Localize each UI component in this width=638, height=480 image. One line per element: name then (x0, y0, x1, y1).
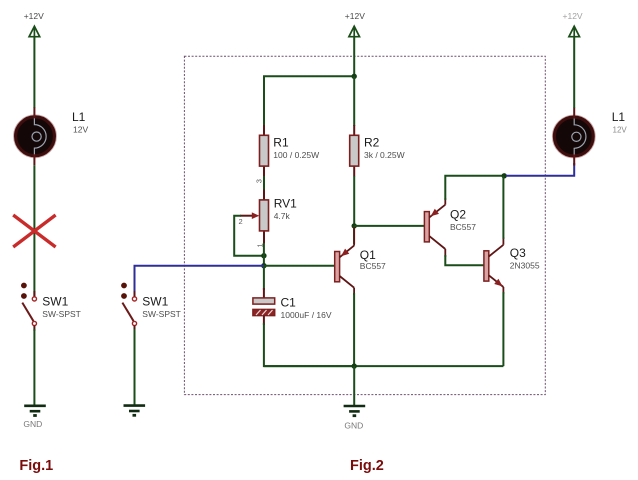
wire node C blue to lamp (506, 163, 574, 176)
power +12V terminal (Fig.2 top) (345, 11, 365, 37)
label Q2 BC557 (450, 208, 476, 232)
svg-text:Q1: Q1 (360, 248, 376, 262)
svg-text:+12V: +12V (24, 11, 44, 21)
label C1 1000uF/16V (281, 295, 332, 319)
svg-text:C1: C1 (281, 295, 297, 309)
wire C1 to bottom rail (264, 323, 353, 366)
junction node C (502, 173, 507, 178)
svg-text:100 / 0.25W: 100 / 0.25W (273, 150, 319, 160)
wire Q3 emitter to bottom rail (502, 292, 504, 366)
wire node A to R2 (353, 76, 355, 126)
pin number 1 (RV1) (255, 243, 264, 247)
wire Q2 collector to Q3 base (445, 255, 484, 265)
ground (Fig.1) (23, 406, 45, 429)
wire bottom rail (264, 365, 504, 367)
dashed selection box (184, 56, 545, 394)
svg-text:GND: GND (344, 421, 363, 431)
wire Q3 collector to node C (502, 176, 504, 239)
transistor Q1 (BC557 PNP) (335, 227, 354, 295)
wire node B to Q1 emitter (353, 226, 355, 244)
junction wiper node (261, 253, 266, 258)
wire R2 to node B (353, 176, 355, 226)
wire node A to R1 (264, 76, 354, 126)
wire power to node A (353, 37, 355, 77)
switch SW1 (Fig.2) (121, 283, 136, 326)
transistor Q2 (BC557 PNP) (424, 198, 445, 257)
potentiometer RV1 (240, 190, 269, 244)
svg-text:SW1: SW1 (142, 295, 168, 309)
capacitor C1 (253, 288, 275, 325)
label Q1 BC557 (360, 248, 386, 271)
svg-text:+12V: +12V (563, 11, 583, 21)
svg-text:BC557: BC557 (360, 261, 386, 271)
wire Q2 emitter to node C (445, 176, 504, 200)
wire switch to ground (Fig.2) (134, 326, 136, 405)
wire power to lamp L1 (33, 37, 35, 108)
svg-text:+12V: +12V (345, 11, 365, 21)
ground (Fig.2) (344, 406, 366, 431)
lamp L1 (Fig.1) (14, 107, 56, 165)
junction base node (261, 263, 266, 268)
svg-text:Fig.2: Fig.2 (350, 458, 384, 474)
svg-text:3: 3 (254, 179, 263, 183)
junction ground node (352, 363, 357, 368)
pin number 3 (RV1) (254, 179, 263, 183)
label SW1 SW-SPST (Fig.1) (42, 295, 81, 319)
ground (Fig.2 switch) (124, 406, 146, 416)
svg-text:SW-SPST: SW-SPST (42, 309, 81, 319)
pin number 2 (RV1) (239, 217, 243, 226)
svg-text:Fig.1: Fig.1 (19, 458, 53, 474)
svg-text:SW-SPST: SW-SPST (142, 309, 181, 319)
svg-text:3k / 0.25W: 3k / 0.25W (364, 150, 405, 160)
junction node B (352, 223, 357, 228)
svg-text:12V: 12V (73, 124, 88, 134)
resistor R2 (350, 125, 359, 176)
label R1 100/0.25W (273, 136, 319, 160)
resistor R1 (260, 125, 269, 176)
label Q3 2N3055 (510, 246, 540, 271)
label SW1 SW-SPST (Fig.2) (142, 295, 181, 319)
svg-text:2: 2 (239, 217, 243, 226)
junction node A (352, 74, 357, 79)
wire lamp to power (Fig.2) (573, 37, 575, 108)
broken-wire X mark (13, 215, 55, 247)
label R2 3k/0.25W (364, 136, 405, 160)
svg-text:SW1: SW1 (42, 295, 68, 309)
svg-text:L1: L1 (612, 110, 626, 124)
wire Q1 base (264, 265, 335, 267)
svg-text:L1: L1 (72, 110, 86, 124)
svg-text:RV1: RV1 (274, 197, 297, 211)
label RV1 4.7k (274, 197, 297, 221)
svg-text:R2: R2 (364, 136, 380, 150)
wire Q1 collector to bottom rail (353, 293, 355, 366)
label L1 12V (Fig.2) (612, 110, 628, 135)
power +12V terminal (Fig.1) (24, 11, 44, 37)
transistor Q3 (2N3055 NPN) (484, 237, 504, 294)
svg-text:1000uF / 16V: 1000uF / 16V (281, 310, 332, 320)
lamp L1 (Fig.2) (553, 108, 595, 166)
power +12V terminal (Fig.2 lamp) (563, 11, 583, 37)
svg-text:Q3: Q3 (510, 246, 526, 260)
wire lamp to switch SW1 (33, 165, 35, 296)
wire RV1 wiper loop (234, 216, 264, 256)
caption Fig.1 (19, 458, 53, 474)
wire base node to C1 (263, 266, 265, 290)
svg-text:BC557: BC557 (450, 222, 476, 232)
svg-text:2N3055: 2N3055 (510, 261, 540, 271)
label L1 12V (Fig.1) (72, 110, 88, 134)
svg-text:Q2: Q2 (450, 208, 466, 222)
wire wiper node to base node (263, 243, 265, 266)
wire R1 to RV1 (263, 176, 265, 191)
svg-text:4.7k: 4.7k (274, 211, 291, 221)
svg-text:12V: 12V (613, 126, 628, 135)
svg-text:R1: R1 (273, 136, 289, 150)
wire node B to Q2 base (354, 225, 424, 227)
switch SW1 (Fig.1) (21, 283, 37, 326)
caption Fig.2 (350, 458, 384, 474)
svg-text:GND: GND (23, 419, 42, 429)
wire switch to ground (33, 326, 35, 405)
wire switch blue to base node (135, 266, 264, 297)
wire ground node to ground (353, 366, 355, 405)
